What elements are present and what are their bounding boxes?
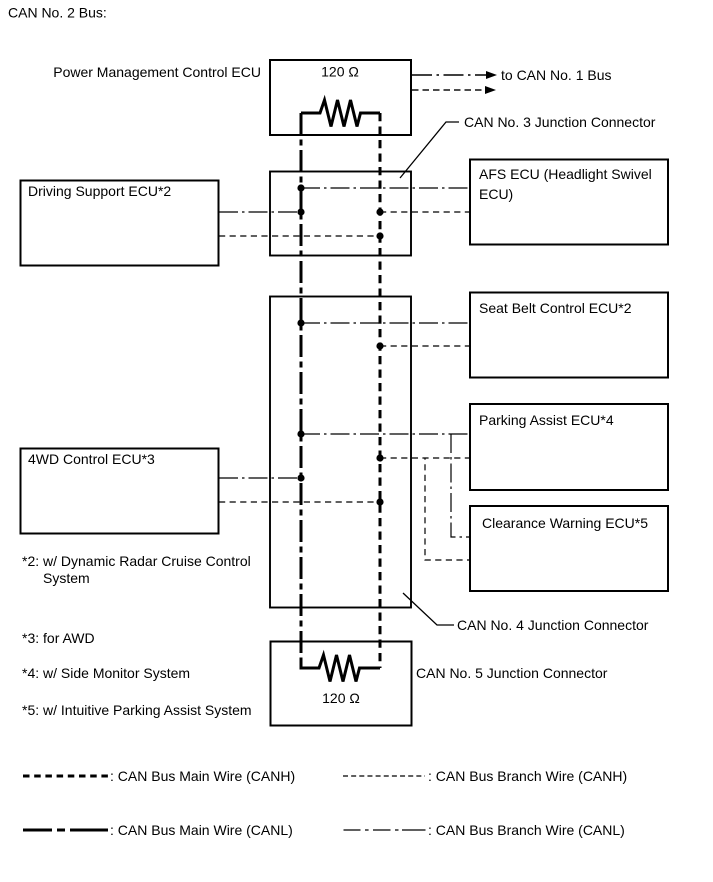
- node: junction of CANH main and AFS branch: [376, 208, 383, 215]
- arrowhead: CANL to CAN No. 1 Bus: [486, 71, 497, 79]
- resistor R2: 120 ohm terminating resistor: [301, 655, 380, 682]
- wire: CANH branch from Driving Support ECU (thin dashed): [219, 235, 380, 237]
- ECU box: 4WD Control ECU*3: [21, 449, 219, 534]
- svg-text:to CAN No. 1 Bus: to CAN No. 1 Bus: [501, 67, 612, 83]
- wire: CANL link to CAN No. 1 Bus (dash-dot arrow): [412, 74, 487, 76]
- wire: CANL branch from Driving Support ECU (thin dash-dot): [219, 211, 301, 213]
- wire: CANL branch to AFS ECU (thin dash-dot): [301, 187, 470, 189]
- wire: CANH main bus line (right vertical, thick dashed): [379, 113, 382, 668]
- ECU box: Driving Support ECU*2: [21, 181, 219, 266]
- svg-text:*3: for AWD: *3: for AWD: [22, 630, 95, 646]
- junction connector box: CAN No. 4 Junction Connector: [270, 297, 411, 608]
- wire: CANH branch drop to Clearance Warning ECU (thin dashed): [425, 458, 470, 560]
- wire: CANH branch to Seat Belt Control ECU (thin dashed): [380, 345, 470, 347]
- ECU box: AFS ECU (Headlight Swivel ECU): [470, 160, 668, 245]
- svg-text:: CAN Bus Main Wire (CANL): : CAN Bus Main Wire (CANL): [110, 822, 293, 838]
- junction connector box: CAN No. 5 Junction Connector (terminator housing): [271, 642, 412, 726]
- wire: CANL branch to Seat Belt Control ECU (thin dash-dot): [301, 322, 470, 324]
- svg-text:Power Management Control ECU: Power Management Control ECU: [53, 64, 261, 80]
- svg-text:CAN No. 3 Junction Connector: CAN No. 3 Junction Connector: [464, 114, 656, 130]
- node: junction of CANH main and Driving Support branch: [376, 232, 383, 239]
- ECU box: Parking Assist ECU*4: [470, 404, 668, 490]
- wire: CANH branch to Parking Assist ECU (thin dashed): [380, 457, 470, 459]
- node: junction of CANH main and Parking Assist branch: [376, 454, 383, 461]
- node: junction of CANH main and Seat Belt branch: [376, 342, 383, 349]
- svg-text:AFS ECU (Headlight Swivel: AFS ECU (Headlight Swivel: [479, 166, 652, 182]
- arrowhead: CANH to CAN No. 1 Bus: [485, 86, 496, 94]
- svg-text:Clearance Warning ECU*5: Clearance Warning ECU*5: [482, 515, 648, 531]
- svg-text:*2: w/ Dynamic Radar Cruise Co: *2: w/ Dynamic Radar Cruise Control: [22, 553, 251, 569]
- node: junction of CANH main and 4WD branch: [376, 498, 383, 505]
- leader line: CAN No. 3 Junction Connector callout: [400, 122, 459, 178]
- ECU box: Seat Belt Control ECU*2: [470, 293, 668, 378]
- ECU box: Power Management Control ECU (terminator housing): [270, 60, 411, 135]
- ECU box: Clearance Warning ECU*5: [470, 506, 668, 591]
- node: junction of CANL main and Parking Assist branch: [297, 430, 304, 437]
- wire: CANH branch from 4WD Control ECU (thin dashed): [219, 501, 380, 503]
- legend swatch: CAN Bus Branch Wire CANH (thin dashed): [343, 775, 425, 777]
- svg-text:Driving Support ECU*2: Driving Support ECU*2: [28, 183, 171, 199]
- wire: CANH branch to AFS ECU (thin dashed): [380, 211, 470, 213]
- svg-text:: CAN Bus Branch Wire (CANH): : CAN Bus Branch Wire (CANH): [428, 768, 627, 784]
- wire: CANL branch to Parking Assist ECU (thin dash-dot): [301, 433, 470, 435]
- svg-text:Seat Belt Control ECU*2: Seat Belt Control ECU*2: [479, 300, 632, 316]
- svg-text:System: System: [43, 570, 90, 586]
- wire: CANL branch drop to Clearance Warning ECU (thin dash-dot): [451, 434, 470, 537]
- svg-text:*5: w/ Intuitive Parking Assis: *5: w/ Intuitive Parking Assist System: [22, 702, 252, 718]
- svg-text:: CAN Bus Main Wire (CANH): : CAN Bus Main Wire (CANH): [110, 768, 295, 784]
- leader line: CAN No. 4 Junction Connector callout: [403, 593, 454, 625]
- legend swatch: CAN Bus Main Wire CANH (thick dashed): [23, 775, 108, 778]
- svg-text:CAN No. 4 Junction Connector: CAN No. 4 Junction Connector: [457, 617, 649, 633]
- node: junction of CANL main and 4WD branch: [297, 474, 304, 481]
- legend swatch: CAN Bus Branch Wire CANL (thin dash-dot): [344, 829, 426, 831]
- node: junction of CANL main and AFS branch: [297, 184, 304, 191]
- svg-text:CAN No. 5 Junction Connector: CAN No. 5 Junction Connector: [416, 665, 608, 681]
- junction connector box: CAN No. 3 Junction Connector: [270, 172, 411, 256]
- svg-text:Parking Assist ECU*4: Parking Assist ECU*4: [479, 412, 614, 428]
- wire: CANL branch from 4WD Control ECU (thin dash-dot): [219, 477, 301, 479]
- svg-text:120 Ω: 120 Ω: [322, 690, 360, 706]
- svg-text:*4: w/ Side Monitor System: *4: w/ Side Monitor System: [22, 665, 190, 681]
- svg-text:4WD Control ECU*3: 4WD Control ECU*3: [28, 451, 155, 467]
- node: junction of CANL main and Driving Support branch: [297, 208, 304, 215]
- svg-text:: CAN Bus Branch Wire (CANL): : CAN Bus Branch Wire (CANL): [428, 822, 625, 838]
- svg-text:ECU): ECU): [479, 186, 513, 202]
- node: junction of CANL main and Seat Belt branch: [297, 319, 304, 326]
- wire: CANH link to CAN No. 1 Bus (dashed arrow): [412, 89, 486, 91]
- svg-text:120 Ω: 120 Ω: [321, 64, 359, 80]
- legend swatch: CAN Bus Main Wire CANL (thick dash-dot): [23, 829, 108, 832]
- svg-text:CAN No. 2 Bus:: CAN No. 2 Bus:: [8, 5, 107, 21]
- wire: CANL main bus line (left vertical, thick dash-dot): [300, 113, 303, 668]
- resistor R1: 120 ohm terminating resistor: [301, 100, 380, 127]
